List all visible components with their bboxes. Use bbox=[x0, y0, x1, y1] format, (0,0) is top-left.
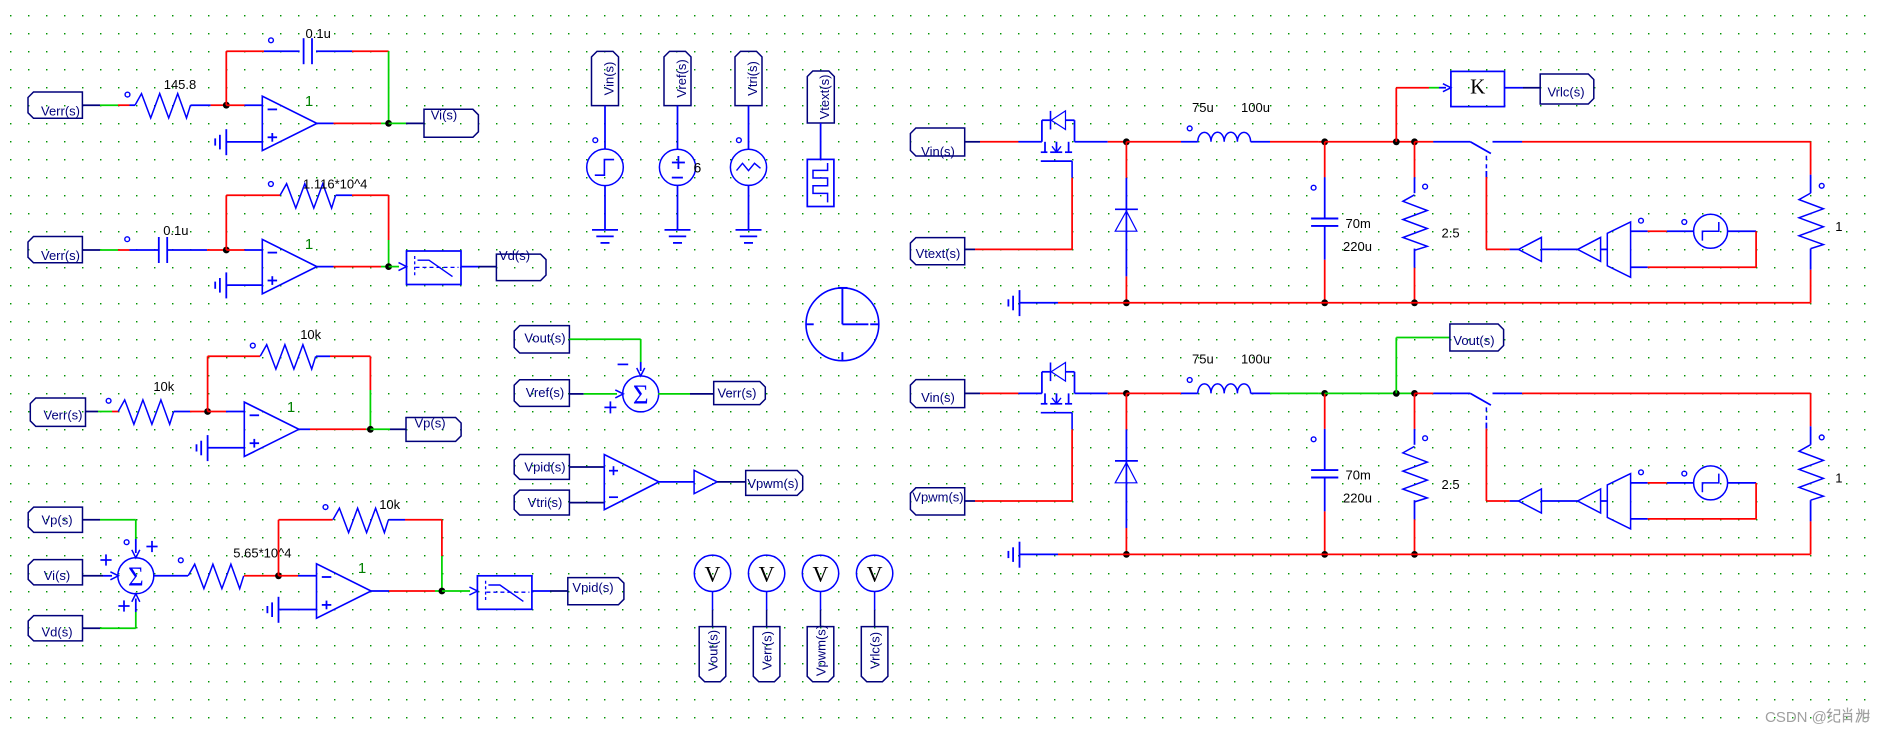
svg-text:Vtri(s): Vtri(s) bbox=[528, 495, 563, 510]
svg-text:Vd(s): Vd(s) bbox=[41, 625, 72, 640]
svg-text:V: V bbox=[867, 561, 883, 586]
svg-text:V: V bbox=[813, 561, 829, 586]
svg-text:70m: 70m bbox=[1346, 216, 1371, 231]
svg-text:Vpwm(s): Vpwm(s) bbox=[912, 490, 963, 505]
svg-text:Vin(s): Vin(s) bbox=[601, 62, 616, 96]
svg-text:Verr(s): Verr(s) bbox=[759, 631, 774, 670]
svg-text:Vp(s): Vp(s) bbox=[414, 416, 445, 431]
svg-text:220u: 220u bbox=[1343, 491, 1372, 506]
svg-text:10k: 10k bbox=[153, 379, 174, 394]
svg-text:V: V bbox=[759, 561, 775, 586]
svg-text:1: 1 bbox=[305, 93, 313, 110]
svg-text:Vout(s): Vout(s) bbox=[705, 630, 720, 671]
svg-text:Σ: Σ bbox=[128, 561, 144, 591]
svg-text:Vpid(s): Vpid(s) bbox=[524, 460, 565, 475]
svg-text:100u: 100u bbox=[1241, 351, 1270, 366]
svg-text:145.8: 145.8 bbox=[164, 77, 197, 92]
svg-text:100u: 100u bbox=[1241, 100, 1270, 115]
svg-text:Vin(s): Vin(s) bbox=[921, 390, 955, 405]
svg-text:220u: 220u bbox=[1343, 239, 1372, 254]
svg-text:1: 1 bbox=[287, 399, 295, 416]
svg-text:V: V bbox=[705, 561, 721, 586]
svg-text:70m: 70m bbox=[1346, 468, 1371, 483]
svg-text:Vref(s): Vref(s) bbox=[526, 385, 565, 400]
svg-text:Vin(s): Vin(s) bbox=[921, 144, 955, 159]
svg-text:1: 1 bbox=[358, 560, 366, 577]
svg-text:Vd(s): Vd(s) bbox=[499, 248, 530, 263]
svg-text:1.116*10^4: 1.116*10^4 bbox=[303, 177, 367, 192]
svg-text:Vtext(s): Vtext(s) bbox=[916, 246, 961, 261]
svg-text:Vtext(s): Vtext(s) bbox=[817, 75, 832, 120]
svg-text:Vrlc(s): Vrlc(s) bbox=[867, 632, 882, 669]
svg-text:5.65*10^4: 5.65*10^4 bbox=[233, 546, 291, 561]
svg-text:Vpwm(s): Vpwm(s) bbox=[813, 625, 828, 676]
svg-text:Vp(s): Vp(s) bbox=[41, 513, 72, 528]
svg-text:CSDN @: CSDN @ bbox=[1765, 709, 1827, 726]
svg-text:Vi(s): Vi(s) bbox=[44, 568, 70, 583]
svg-text:2.5: 2.5 bbox=[1442, 477, 1460, 492]
svg-text:Σ: Σ bbox=[633, 379, 649, 409]
svg-text:10k: 10k bbox=[300, 327, 321, 342]
svg-text:Verr(s): Verr(s) bbox=[718, 386, 757, 401]
svg-text:75u: 75u bbox=[1192, 351, 1214, 366]
svg-text:0.1u: 0.1u bbox=[163, 223, 188, 238]
svg-text:0.1u: 0.1u bbox=[306, 26, 331, 41]
svg-text:10k: 10k bbox=[379, 497, 400, 512]
svg-text:Vrlc(s): Vrlc(s) bbox=[1547, 85, 1584, 100]
svg-text:1: 1 bbox=[1835, 471, 1842, 486]
svg-text:Vpwm(s): Vpwm(s) bbox=[747, 476, 798, 491]
svg-text:6: 6 bbox=[694, 159, 702, 175]
svg-text:2.5: 2.5 bbox=[1442, 226, 1460, 241]
svg-text:Verr(s): Verr(s) bbox=[41, 104, 80, 119]
svg-text:Vout(s): Vout(s) bbox=[1453, 333, 1494, 348]
svg-text:1: 1 bbox=[305, 236, 313, 253]
svg-text:Verr(s): Verr(s) bbox=[41, 248, 80, 263]
svg-text:Vref(s): Vref(s) bbox=[674, 59, 689, 98]
svg-text:75u: 75u bbox=[1192, 100, 1214, 115]
svg-text:Vtri(s): Vtri(s) bbox=[745, 61, 760, 96]
svg-text:K: K bbox=[1470, 74, 1485, 98]
svg-text:Verr(s): Verr(s) bbox=[44, 408, 83, 423]
svg-text:1: 1 bbox=[1835, 219, 1842, 234]
svg-text:Vout(s): Vout(s) bbox=[524, 331, 565, 346]
svg-text:Vi(s): Vi(s) bbox=[431, 108, 457, 123]
svg-text:Vpid(s): Vpid(s) bbox=[572, 580, 613, 595]
